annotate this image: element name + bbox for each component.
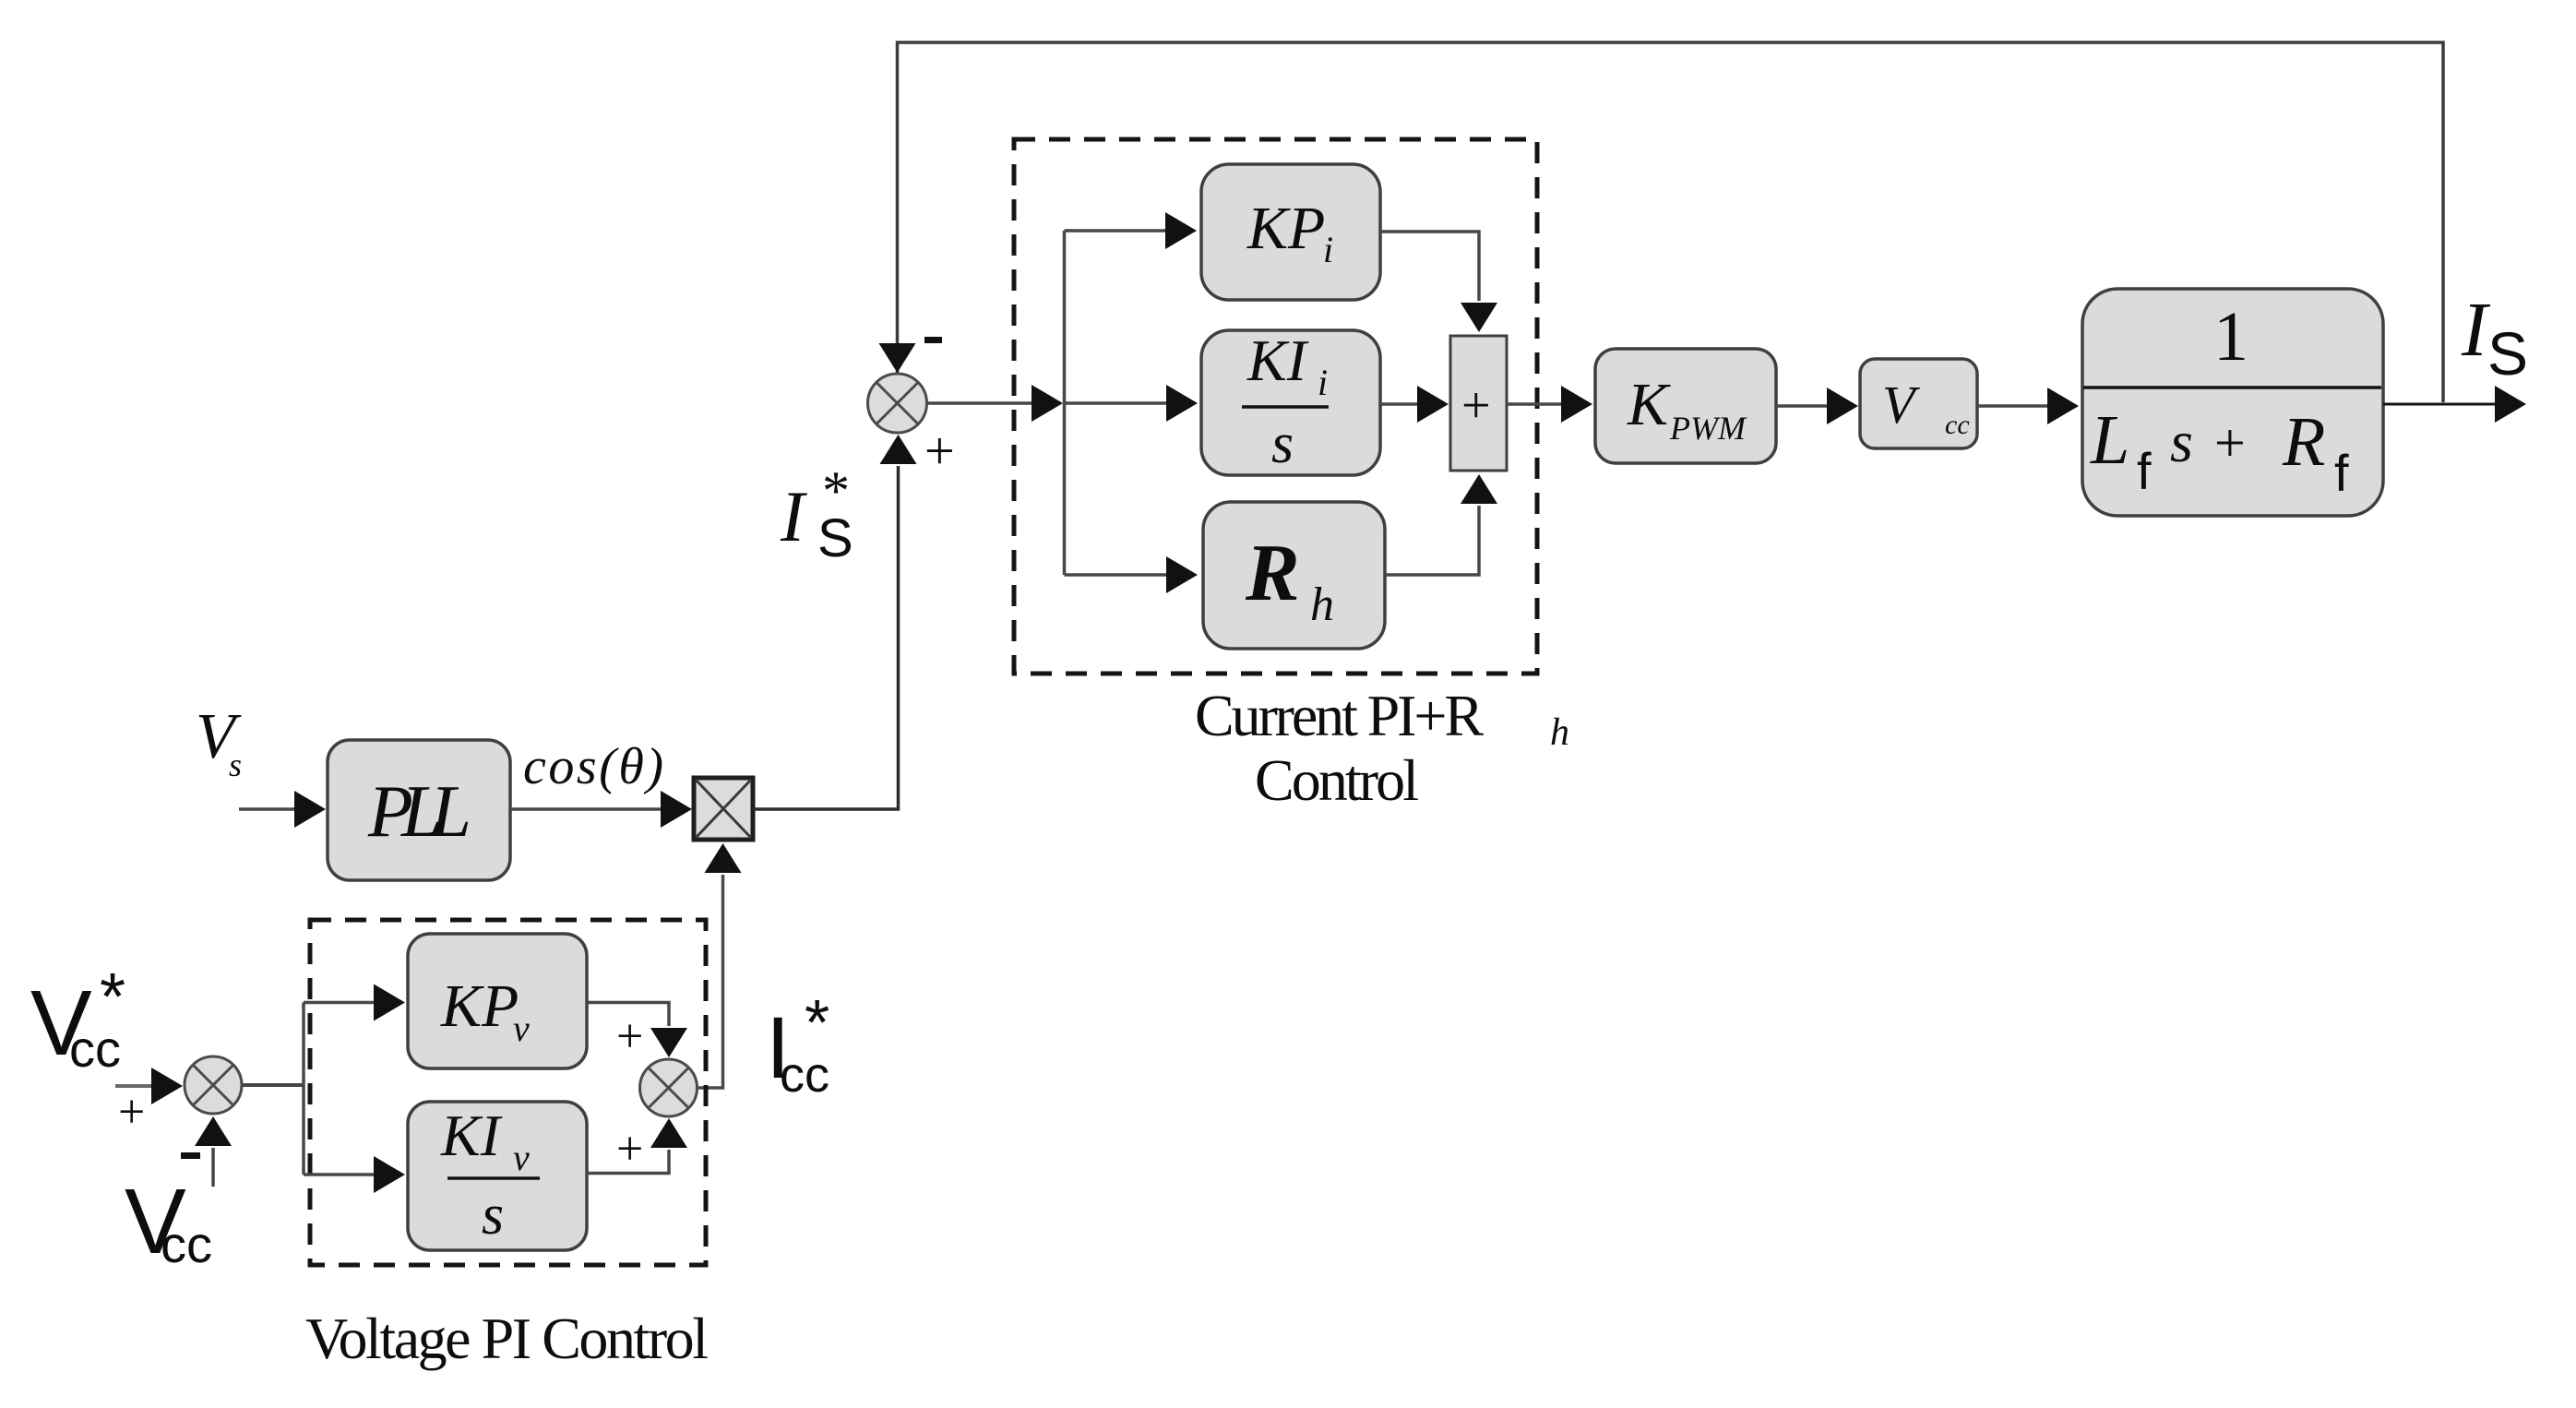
svg-text:KI: KI bbox=[1246, 328, 1309, 393]
multiplier M1 square bbox=[694, 778, 753, 840]
summing junction S3 bbox=[640, 1059, 698, 1116]
wire branch to KPi bbox=[1065, 212, 1198, 249]
svg-text:cos(θ): cos(θ) bbox=[523, 738, 663, 795]
wire KPi output to adder bbox=[1380, 232, 1497, 332]
label Vcc measured bbox=[125, 1170, 212, 1273]
wire S1 to branch node of current controller bbox=[926, 385, 1063, 422]
svg-text:Voltage PI Control: Voltage PI Control bbox=[305, 1306, 709, 1371]
wire branch to KIv bbox=[304, 1156, 405, 1193]
block KIv/s bbox=[408, 1102, 587, 1250]
svg-text:f: f bbox=[2137, 442, 2152, 500]
wire Icc* riser from S3 up into M1 bbox=[697, 843, 742, 1088]
wire PLL to multiplier M1 bbox=[510, 791, 692, 828]
wire Vs into PLL bbox=[239, 791, 326, 828]
wire branch to Rh bbox=[1065, 556, 1199, 593]
wire Vcc gain to plant block bbox=[1977, 388, 2079, 424]
node minus sign at S2 bbox=[181, 1152, 200, 1159]
label Vs source voltage bbox=[196, 701, 242, 783]
svg-text:+: + bbox=[118, 1086, 145, 1139]
svg-text:s: s bbox=[229, 746, 242, 783]
wire branch to KIi bbox=[1065, 385, 1199, 422]
svg-text:S: S bbox=[817, 508, 853, 568]
svg-text:h: h bbox=[1310, 579, 1334, 631]
label Icc* bbox=[766, 986, 829, 1103]
summing junction S1 bbox=[868, 374, 927, 433]
wire Rh output to adder bbox=[1385, 474, 1497, 575]
adder rectangle (+) bbox=[1450, 336, 1507, 471]
dashed box Voltage PI Control bbox=[310, 920, 706, 1265]
caption Current PI+R Control bbox=[1195, 683, 1569, 813]
svg-text:R: R bbox=[1245, 529, 1300, 618]
wire S2 to branch of voltage controller bbox=[242, 1083, 304, 1087]
svg-text:PLL: PLL bbox=[367, 771, 471, 853]
svg-text:+: + bbox=[924, 421, 955, 481]
wire KPWM to Vcc gain bbox=[1776, 388, 1858, 424]
svg-text:+: + bbox=[1461, 377, 1491, 435]
wire branch vertical voltage controller bbox=[302, 1003, 305, 1175]
svg-text:R: R bbox=[2282, 403, 2325, 481]
svg-text:h: h bbox=[1550, 711, 1569, 754]
svg-text:v: v bbox=[513, 1137, 530, 1178]
wire into S2 bbox=[115, 1068, 183, 1104]
svg-text:i: i bbox=[1323, 229, 1333, 270]
wire feedback loop from output Is back to summing junction S1 bbox=[879, 42, 2444, 402]
svg-text:I: I bbox=[780, 476, 808, 556]
svg-text:PWM: PWM bbox=[1669, 410, 1747, 447]
wire Vcc measured into S2 bottom bbox=[195, 1116, 232, 1187]
wire plant output Is with junction to feedback bbox=[2383, 386, 2526, 423]
block KIi/s bbox=[1201, 328, 1380, 475]
svg-text:L: L bbox=[2090, 401, 2129, 479]
block KPv bbox=[408, 934, 587, 1068]
dashed box Current PI+R Control bbox=[1014, 139, 1537, 674]
svg-text:KP: KP bbox=[1246, 195, 1325, 262]
svg-text:S: S bbox=[2487, 319, 2528, 388]
summing junction S2 bbox=[185, 1056, 242, 1114]
node minus sign at S1 bbox=[924, 337, 942, 343]
wire KIv output into S3 bbox=[587, 1118, 687, 1174]
wire KPv output into S3 bbox=[587, 1003, 687, 1058]
svg-text:f: f bbox=[2334, 444, 2349, 502]
svg-text:1: 1 bbox=[2213, 298, 2248, 376]
wire adder to KPWM bbox=[1507, 386, 1592, 423]
block Vcc gain bbox=[1860, 359, 1977, 448]
wire branch vertical inside current controller bbox=[1063, 231, 1067, 575]
svg-text:+: + bbox=[616, 1123, 643, 1175]
svg-text:+: + bbox=[2214, 412, 2246, 473]
svg-text:s: s bbox=[2170, 409, 2193, 474]
svg-text:s: s bbox=[1271, 412, 1294, 475]
wire M1 output up to S1 plus input bbox=[753, 435, 917, 809]
label Is* reference input bbox=[780, 460, 853, 568]
wire branch to KPv bbox=[304, 984, 405, 1021]
block PLL bbox=[328, 740, 510, 880]
block Rh bbox=[1203, 502, 1385, 649]
svg-text:Control: Control bbox=[1255, 747, 1419, 813]
svg-text:v: v bbox=[513, 1008, 530, 1049]
wire KIi output to adder bbox=[1380, 386, 1449, 423]
svg-text:*: * bbox=[805, 986, 829, 1058]
block KPWM bbox=[1595, 349, 1776, 463]
svg-text:Current PI+R: Current PI+R bbox=[1195, 683, 1484, 748]
svg-text:+: + bbox=[616, 1010, 643, 1063]
svg-text:*: * bbox=[100, 961, 125, 1034]
svg-text:cc: cc bbox=[1945, 410, 1970, 440]
svg-text:KI: KI bbox=[440, 1103, 503, 1168]
svg-text:K: K bbox=[1627, 371, 1671, 438]
svg-text:s: s bbox=[482, 1184, 504, 1247]
label Is output bbox=[2461, 287, 2528, 388]
svg-text:cc: cc bbox=[161, 1215, 212, 1273]
label Vcc* reference bbox=[30, 961, 125, 1078]
svg-text:KP: KP bbox=[440, 972, 519, 1040]
svg-text:i: i bbox=[1318, 362, 1328, 403]
block plant 1/(Lf s + Rf) bbox=[2082, 289, 2383, 516]
block KPi bbox=[1201, 164, 1380, 300]
